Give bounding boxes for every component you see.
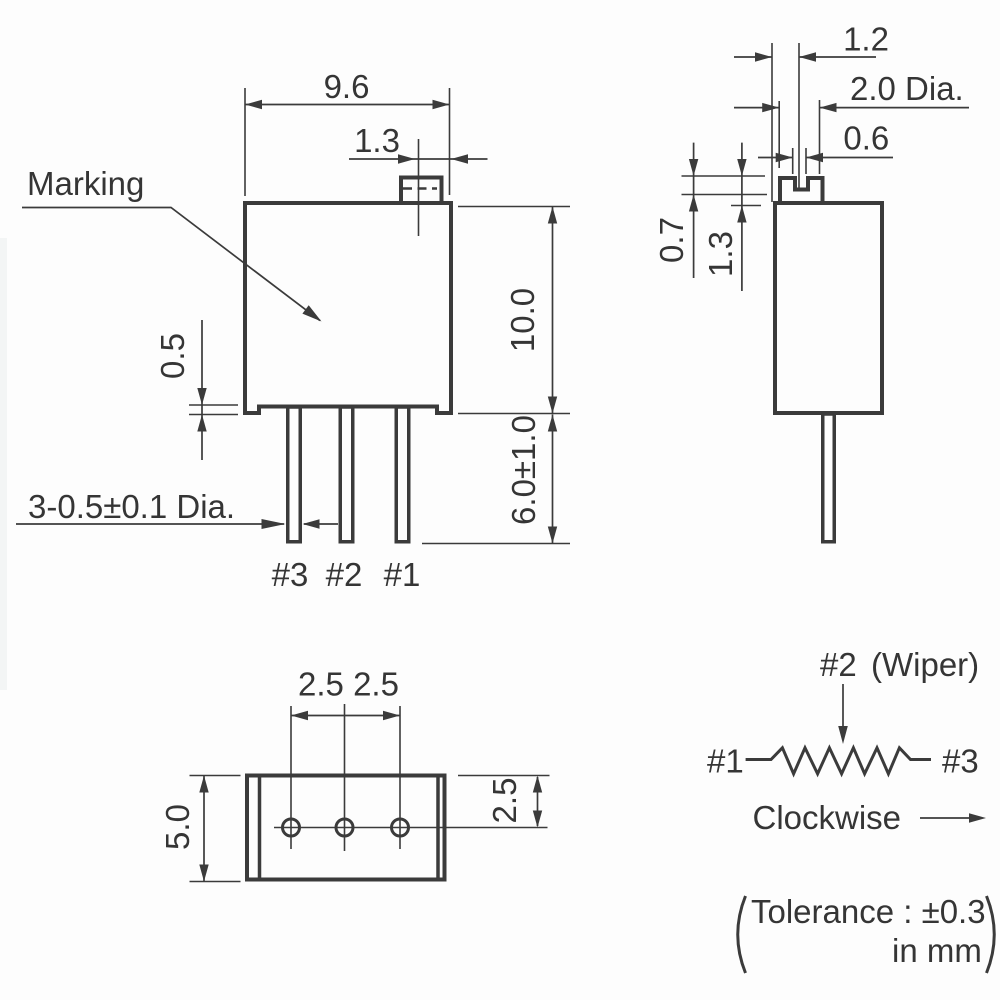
schematic: clockwise direction arrow: [920, 813, 986, 822]
svg-text:#3: #3: [272, 556, 309, 593]
svg-text:0.6: 0.6: [843, 120, 889, 157]
svg-text:10.0: 10.0: [504, 288, 541, 352]
dim 0.7 reference line: [682, 175, 766, 177]
schematic: wiper arrow: [838, 684, 848, 744]
dim 0.7 dimension line: [689, 143, 698, 278]
dim 6.0 +/-1.0 dimension line: [548, 415, 557, 544]
bottom view: hole 1: [392, 819, 409, 836]
dim 6.0 +/-1.0 bottom extension line: [422, 543, 570, 545]
lead diameter leader arrows: [16, 519, 338, 529]
dim 2.0 Dia. extension lines: [779, 100, 819, 174]
svg-text:6.0±1.0: 6.0±1.0: [505, 415, 542, 525]
dim 0.5 reference ticks: [189, 405, 238, 415]
svg-text:#2: #2: [820, 646, 857, 683]
svg-text:0.5: 0.5: [154, 333, 191, 379]
svg-text:#1: #1: [707, 743, 744, 780]
front view: screw slot dashed line: [403, 187, 437, 189]
dim 2.5 2.5 dimension line: [291, 711, 400, 720]
svg-text:9.6: 9.6: [324, 68, 370, 105]
dim 2.5 (right) extension line: [458, 775, 550, 777]
svg-text:Tolerance : ±0.3: Tolerance : ±0.3: [751, 893, 986, 930]
dim 5.0 dimension line: [199, 776, 208, 882]
dim 0.6 extension lines: [793, 148, 806, 174]
svg-text:#3: #3: [942, 743, 979, 780]
tolerance note: right parenthesis: [987, 896, 995, 973]
dim 1.2 dimension line: [734, 52, 876, 61]
dim 9.6 dimension line: [245, 100, 450, 109]
side view: pin: [823, 414, 835, 542]
bottom view: right side inner line: [436, 776, 440, 879]
bottom view: outline: [247, 776, 445, 880]
dim 5.0 extension lines: [190, 776, 241, 882]
tolerance note: left parenthesis: [738, 896, 746, 973]
dim 2.0 Dia. dimension line: [734, 103, 969, 112]
dim 1.2 extension lines: [772, 43, 799, 202]
svg-text:1.2: 1.2: [843, 21, 889, 58]
pin 1 (front view): [396, 407, 409, 542]
schematic: resistor R zigzag with leads: [746, 748, 931, 774]
dim 9.6 extension lines: [245, 88, 450, 196]
svg-text:2.5: 2.5: [486, 778, 523, 824]
dim 0.5 dimension line: [197, 320, 206, 460]
svg-text:#2: #2: [326, 556, 363, 593]
svg-text:3-0.5±0.1 Dia.: 3-0.5±0.1 Dia.: [28, 488, 235, 525]
bottom view: left side inner line: [258, 776, 262, 879]
pin 3 (front view): [288, 407, 301, 542]
side view: body: [775, 203, 882, 413]
bottom view: hole centerlines vertical: [291, 704, 400, 851]
dim 1.3 (side) dimension line: [737, 143, 746, 291]
dim 10.0 dimension line: [548, 207, 557, 414]
svg-text:1.3: 1.3: [354, 122, 400, 159]
svg-text:#1: #1: [384, 556, 421, 593]
front view: screw centerline: [418, 139, 420, 236]
dim 1.3 (side) reference lines: [682, 195, 768, 206]
svg-text:(Wiper): (Wiper): [871, 646, 979, 683]
svg-text:0.7: 0.7: [653, 217, 690, 263]
dim 10.0 extension lines: [458, 207, 570, 414]
side view: screw cap with slot: [780, 178, 823, 204]
marking leader arrow: [22, 208, 322, 322]
svg-text:Clockwise: Clockwise: [753, 799, 902, 836]
pin 2 (front view): [340, 407, 353, 542]
svg-text:1.3: 1.3: [702, 231, 739, 277]
front view: trimmer body outline: [245, 203, 451, 413]
svg-text:2.5 2.5: 2.5 2.5: [298, 666, 399, 703]
dim 1.3 dimension lines: [349, 154, 488, 163]
front view: adjustment screw boss: [401, 178, 442, 204]
svg-text:2.0 Dia.: 2.0 Dia.: [850, 70, 964, 107]
svg-text:5.0: 5.0: [159, 804, 196, 850]
dim 0.6 dimension line: [758, 153, 893, 162]
bottom view: hole 2: [336, 819, 353, 836]
svg-text:in mm: in mm: [892, 932, 982, 969]
dim 2.5 (right) dimension line: [533, 776, 542, 828]
bottom view: holes centerline horizontal: [274, 827, 548, 829]
svg-text:Marking: Marking: [27, 165, 144, 202]
bottom view: hole 3: [283, 819, 300, 836]
